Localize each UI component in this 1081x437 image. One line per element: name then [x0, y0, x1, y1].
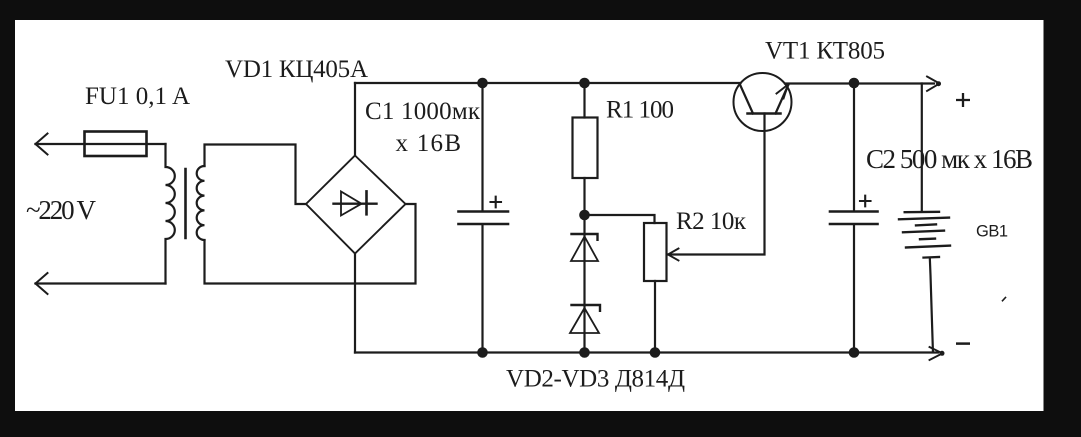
svg-text:VT1 КТ805: VT1 КТ805	[765, 38, 885, 65]
wire: negative bottom rail	[355, 351, 938, 353]
stray mark	[1003, 298, 1006, 301]
svg-text:C2 500 мк x 16В: C2 500 мк x 16В	[866, 144, 1033, 174]
wire: bridge bottom vertex down to negative rail	[354, 254, 356, 353]
wire: secondary top to bridge left vertex	[205, 145, 307, 205]
wire: bridge top vertex up to positive rail	[354, 83, 356, 156]
output arrow -	[930, 347, 943, 360]
capacitor C2 plates	[830, 212, 878, 225]
transformer core	[184, 169, 187, 238]
VT1 emitter with arrow	[776, 85, 789, 114]
potentiometer R2 body	[644, 223, 667, 281]
node: VD3 bottom	[579, 347, 590, 358]
battery GB1 bottom wire	[924, 256, 940, 259]
svg-text:R1 100: R1 100	[606, 97, 674, 124]
node: rail/R1 top	[579, 78, 590, 89]
svg-text:VD1 КЦ405А: VD1 КЦ405А	[225, 56, 368, 83]
capacitor C1 branch wires	[481, 83, 483, 211]
diode symbol inside VD1	[334, 202, 377, 204]
zener diode VD2	[583, 215, 585, 353]
node: R1/VD2/R2	[579, 210, 590, 221]
bridge rectifier VD1 diamond	[306, 156, 406, 254]
svg-text:GB1: GB1	[976, 223, 1008, 241]
capacitor C1 plates	[459, 212, 509, 225]
wire: positive rail right of VT1	[785, 82, 934, 84]
output plus label	[956, 93, 970, 107]
battery GB1 top wire	[921, 84, 923, 211]
resistor R1 body	[573, 118, 598, 179]
node: rail/C2 top	[849, 78, 860, 89]
transistor VT1 circle	[734, 73, 792, 131]
wire: R2 bottom to negative rail	[654, 281, 656, 353]
svg-text:VD2-VD3 Д814Д: VD2-VD3 Д814Д	[506, 366, 685, 393]
junction dots	[477, 78, 859, 358]
R2 wiper arrow and wire to VT1 base	[670, 114, 765, 255]
zener diode VD3	[572, 305, 601, 311]
wire: node below R1 to R2 top	[585, 215, 655, 223]
VT1 base bar	[748, 112, 781, 115]
node: R2 bottom	[650, 347, 661, 358]
svg-text:R2 10к: R2 10к	[676, 208, 747, 235]
wire: AC input top with arrow	[36, 143, 166, 145]
transformer secondary winding	[197, 166, 205, 240]
C2 plus sign	[860, 196, 871, 207]
wire: secondary bottom to bridge right vertex	[205, 204, 416, 284]
capacitor C2 branch wires	[853, 83, 855, 211]
C1 plus sign	[491, 197, 502, 208]
node: C2 bottom	[849, 347, 860, 358]
node: C1 bottom	[477, 347, 488, 358]
wire: AC input bottom with arrow	[36, 282, 166, 284]
svg-text:C1 1000мк: C1 1000мк	[365, 98, 481, 125]
battery GB1 plates	[905, 211, 939, 214]
output arrow +	[927, 77, 940, 92]
output minus label	[956, 342, 970, 345]
wire: positive top rail (left of VT1)	[355, 82, 741, 84]
transformer T primary winding	[166, 144, 175, 284]
svg-text:x 16В: x 16В	[396, 130, 462, 157]
svg-text:FU1 0,1 A: FU1 0,1 A	[85, 83, 190, 110]
resistor R1 branch wires	[583, 83, 585, 118]
fuse FU1	[85, 132, 147, 157]
node: rail/C1 top	[477, 78, 488, 89]
VT1 collector	[740, 84, 754, 114]
svg-text:~220 V: ~220 V	[26, 195, 97, 225]
